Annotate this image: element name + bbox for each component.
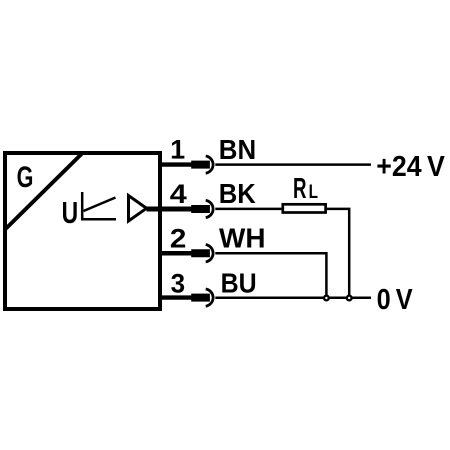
pin 2 stub wire [159,251,192,255]
svg-text:U: U [62,196,79,230]
wire BU 0V rail [215,297,371,300]
amplifier triangle [129,196,147,222]
connector plug pin 2 [191,249,210,257]
wire WH right and down to 0V junction [215,253,326,295]
pin 3 stub wire [159,295,192,299]
svg-text:WH: WH [219,222,266,253]
junction WH to 0V [324,296,329,301]
connector socket pin 1 [206,156,213,173]
connector socket pin 4 [206,200,213,217]
wire BN to +24V [215,163,371,166]
wire BK to resistor [215,208,282,211]
connector socket pin 2 [206,245,213,262]
svg-text:BU: BU [221,267,257,298]
characteristic curve symbol [81,192,116,221]
svg-text:L: L [309,181,318,203]
svg-text:1: 1 [170,135,185,165]
connector plug pin 3 [191,294,210,302]
sensor body box U1 [5,153,160,309]
sensor diagonal divider [6,154,83,230]
resistor RL [283,204,326,212]
svg-text:4: 4 [170,179,187,209]
svg-text:0 V: 0 V [377,284,414,316]
svg-text:G: G [17,161,34,194]
pin 1 stub wire [159,162,192,166]
junction RL to 0V [347,296,352,301]
svg-text:3: 3 [171,268,186,298]
connector plug pin 4 [191,205,210,213]
connector plug pin 1 [191,161,210,169]
connector socket pin 3 [206,289,213,306]
svg-text:+24 V: +24 V [376,151,445,183]
svg-text:R: R [293,173,307,205]
svg-text:2: 2 [170,223,187,253]
wire pin 4 internal [147,207,192,212]
svg-text:BK: BK [219,178,256,209]
wire resistor to corner and down to 0V junction [327,209,349,295]
svg-text:BN: BN [219,134,256,165]
